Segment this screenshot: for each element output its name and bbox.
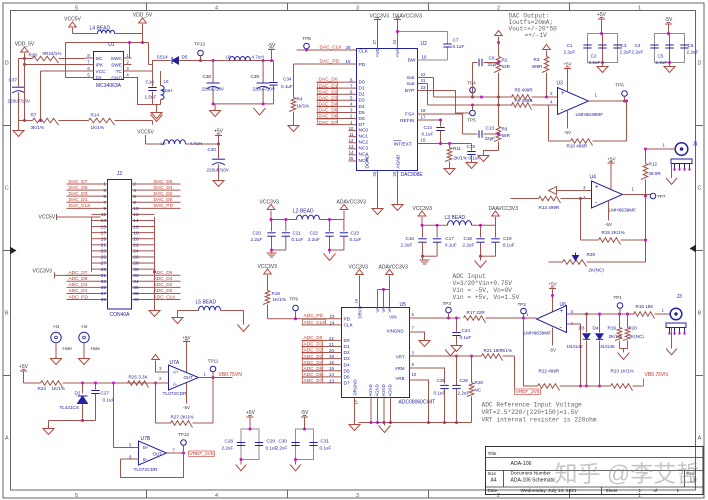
svg-text:INT/EXT: INT/EXT	[394, 142, 412, 148]
svg-text:19: 19	[101, 236, 107, 242]
svg-text:CLK: CLK	[344, 323, 354, 329]
svg-text:0.1uF: 0.1uF	[445, 243, 457, 248]
svg-text:C26: C26	[460, 378, 469, 383]
svg-text:+: +	[561, 91, 565, 97]
svg-text:TP8: TP8	[302, 36, 311, 41]
svg-text:NC1: NC1	[359, 133, 369, 139]
wire SW node to diode	[124, 57, 130, 59]
svg-text:ADAVCC3V3: ADAVCC3V3	[337, 200, 367, 206]
svg-text:TP1: TP1	[614, 295, 623, 300]
svg-text:A: A	[698, 436, 702, 442]
svg-text:VA: VA	[387, 307, 392, 312]
svg-text:C21: C21	[293, 231, 302, 236]
svg-text:C: C	[698, 186, 702, 192]
svg-text:D4: D4	[344, 362, 350, 368]
svg-text:40: 40	[133, 297, 139, 303]
net label VREF_2V5 output	[189, 451, 215, 456]
svg-text:NC3: NC3	[359, 146, 369, 152]
svg-text:VREF_2V5: VREF_2V5	[516, 389, 540, 395]
svg-text:4: 4	[215, 6, 218, 12]
svg-text:Wednesday, July 14, 2021: Wednesday, July 14, 2021	[521, 488, 577, 494]
svg-text:D4: D4	[359, 104, 365, 110]
svg-text:D: D	[698, 61, 702, 67]
svg-text:C2: C2	[591, 54, 597, 59]
svg-text:R11: R11	[453, 146, 462, 151]
svg-text:VRT=2.5*220/(220+150)=1.5V: VRT=2.5*220/(220+150)=1.5V	[482, 409, 579, 416]
svg-text:Iout: Iout	[406, 75, 415, 81]
svg-text:R2: R2	[502, 58, 508, 63]
U5 DRGND wire and ground	[354, 398, 356, 425]
svg-text:SS14: SS14	[157, 55, 169, 60]
svg-text:VRT: VRT	[396, 355, 405, 360]
svg-text:26: 26	[372, 171, 377, 176]
net label VREF_2V5 (to VRT)	[514, 356, 516, 389]
svg-text:22pF: 22pF	[485, 136, 496, 141]
J2 right pin stubs and numbers	[132, 183, 139, 185]
svg-text:L5 BEAD: L5 BEAD	[196, 300, 217, 306]
svg-text:19: 19	[329, 354, 334, 359]
svg-text:VREF_2V5: VREF_2V5	[190, 451, 214, 457]
ground below C5	[669, 63, 671, 67]
wire U2 VA rail to C7	[398, 31, 448, 33]
svg-text:1N4148: 1N4148	[567, 344, 584, 349]
ground below J1	[671, 164, 673, 179]
svg-text:C22: C22	[310, 231, 319, 236]
svg-text:3: 3	[356, 493, 359, 499]
svg-text:VCC3V3: VCC3V3	[349, 265, 369, 271]
svg-text:TP4: TP4	[467, 81, 476, 86]
svg-text:D7: D7	[344, 380, 350, 386]
svg-text:18: 18	[421, 108, 426, 113]
test point TP7	[650, 193, 656, 199]
svg-text:17: 17	[421, 114, 426, 119]
svg-text:VCC: VCC	[96, 69, 107, 75]
svg-text:IPK: IPK	[96, 62, 105, 68]
ground below C22 C23 (open)	[329, 250, 331, 254]
svg-text:TP11: TP11	[208, 359, 219, 364]
svg-text:Sheet: Sheet	[606, 488, 619, 493]
svg-text:0.1uF: 0.1uF	[434, 391, 446, 396]
U5 VRM row to C25	[410, 368, 445, 384]
wire U1 top loop	[66, 34, 143, 43]
svg-text:U1: U1	[108, 42, 115, 48]
svg-text:DC: DC	[96, 56, 103, 62]
svg-text:23: 23	[330, 314, 335, 319]
svg-text:39: 39	[101, 297, 107, 303]
svg-text:22: 22	[421, 72, 426, 77]
svg-text:220uF/10V: 220uF/10V	[207, 168, 230, 173]
svg-text:Size: Size	[488, 471, 497, 476]
svg-text:R22 499R: R22 499R	[539, 369, 560, 374]
svg-text:GND: GND	[111, 75, 122, 81]
svg-text:-5V: -5V	[549, 348, 557, 353]
svg-text:2.2uF: 2.2uF	[564, 50, 576, 55]
svg-text:AGND: AGND	[396, 154, 402, 168]
svg-text:13: 13	[349, 144, 354, 149]
svg-text:12: 12	[133, 212, 139, 218]
svg-text:5: 5	[75, 493, 78, 499]
svg-text:B-: B-	[143, 457, 148, 462]
svg-text:5: 5	[103, 194, 106, 200]
svg-text:C28: C28	[225, 439, 234, 444]
svg-text:Hole: Hole	[63, 346, 73, 351]
svg-text:A+: A+	[173, 369, 179, 374]
svg-text:C8: C8	[489, 56, 495, 61]
svg-text:2K/1%: 2K/1%	[454, 156, 468, 161]
svg-text:U7B: U7B	[141, 436, 151, 442]
ground below C30 C31	[295, 460, 297, 465]
svg-text:BYP: BYP	[405, 88, 415, 94]
wire R9 bottom to ground	[484, 151, 499, 156]
U5 VRT row wire	[410, 355, 481, 357]
svg-text:CLK: CLK	[359, 49, 369, 55]
svg-text:4.7uH: 4.7uH	[252, 55, 264, 60]
svg-text:TL072CDR: TL072CDR	[163, 391, 188, 397]
svg-text:PD: PD	[344, 316, 351, 322]
svg-text:D: D	[5, 61, 9, 67]
svg-text:R24: R24	[38, 386, 47, 391]
svg-text:1: 1	[639, 488, 642, 493]
L3 group bottom rails	[423, 255, 438, 257]
svg-text:B+: B+	[143, 445, 149, 450]
svg-text:LMH6639MF: LMH6639MF	[524, 331, 552, 337]
svg-text:53R: 53R	[502, 64, 511, 69]
ground below C37	[18, 129, 20, 131]
ground rail below TL431 C27	[49, 420, 96, 422]
svg-text:TP7: TP7	[657, 194, 666, 199]
svg-text:TP3: TP3	[443, 301, 452, 306]
svg-text:2: 2	[497, 6, 500, 12]
svg-text:25: 25	[101, 255, 107, 261]
svg-text:VRB: VRB	[395, 376, 404, 381]
svg-text:ADA-106: ADA-106	[511, 461, 532, 467]
svg-text:TP5: TP5	[467, 118, 476, 123]
svg-text:C5: C5	[658, 54, 664, 59]
svg-text:R27 2K/1%: R27 2K/1%	[171, 415, 194, 420]
svg-text:VA: VA	[381, 307, 386, 312]
svg-text:49.9R: 49.9R	[649, 171, 662, 176]
wire REFIN row	[418, 119, 441, 121]
svg-text:20: 20	[392, 171, 397, 176]
svg-text:D2: D2	[75, 391, 81, 396]
svg-text:38: 38	[133, 291, 139, 297]
svg-text:DRVD: DRVD	[358, 306, 363, 318]
svg-text:19: 19	[422, 55, 427, 60]
svg-text:R18: R18	[272, 291, 281, 296]
svg-text:C4: C4	[635, 43, 641, 48]
svg-text:21: 21	[101, 243, 107, 249]
J2 left ground bus	[91, 217, 93, 272]
svg-text:C1: C1	[567, 43, 573, 48]
svg-text:R5 499R: R5 499R	[515, 88, 534, 93]
ground below C18 C19 (open)	[480, 256, 482, 260]
svg-text:D1: D1	[359, 86, 365, 92]
svg-text:R7: R7	[31, 113, 37, 118]
svg-text:2.2uF: 2.2uF	[687, 50, 699, 55]
svg-text:5: 5	[75, 6, 78, 12]
svg-text:1K/1%: 1K/1%	[273, 297, 287, 302]
svg-text:+5V: +5V	[607, 157, 616, 162]
svg-text:H1: H1	[53, 324, 59, 330]
ground arrow right of L5	[243, 311, 245, 325]
svg-text:Hole: Hole	[91, 346, 101, 351]
svg-text:C30: C30	[279, 439, 288, 444]
ground below C2	[602, 63, 604, 67]
svg-text:R3: R3	[534, 57, 540, 62]
svg-text:3: 3	[103, 188, 106, 194]
svg-text:VINGND: VINGND	[386, 329, 403, 334]
svg-text:PD: PD	[359, 62, 366, 68]
power arrow above R2	[495, 31, 503, 36]
svg-text:TL431CS: TL431CS	[60, 405, 79, 410]
svg-text:56R: 56R	[502, 133, 511, 138]
svg-text:+5V: +5V	[182, 335, 191, 340]
svg-text:知乎 @李艾哲: 知乎 @李艾哲	[555, 461, 700, 487]
svg-text:AGND: AGND	[388, 384, 393, 396]
power arrow above R3	[543, 45, 551, 50]
svg-text:9: 9	[103, 206, 106, 212]
svg-text:VB0.75VN: VB0.75VN	[219, 372, 243, 378]
svg-text:29: 29	[101, 267, 107, 273]
ground below C10 L6	[153, 104, 161, 106]
svg-text:VCC3V3: VCC3V3	[370, 14, 390, 20]
wire Iout rows to summing rails	[418, 77, 434, 79]
svg-text:-5V: -5V	[605, 222, 613, 227]
border column ticks top	[146, 3, 148, 11]
capacitor bank C1 C2 C3	[588, 34, 618, 63]
svg-text:VCC5V: VCC5V	[39, 215, 56, 221]
svg-text:15: 15	[346, 59, 351, 64]
svg-text:DAC_CLK: DAC_CLK	[320, 44, 343, 50]
svg-text:FSA: FSA	[405, 112, 415, 118]
ground below C40	[213, 181, 224, 187]
ground below C38 (triangle)	[214, 104, 216, 111]
svg-text:C38: C38	[203, 74, 212, 79]
title block frame	[486, 447, 704, 495]
svg-text:15: 15	[101, 224, 107, 230]
svg-text:VDD_5V: VDD_5V	[133, 13, 153, 19]
svg-text:C7: C7	[453, 38, 459, 43]
svg-text:ADC Reference Input Voltage: ADC Reference Input Voltage	[482, 402, 583, 409]
svg-text:R26: R26	[475, 380, 484, 385]
svg-text:TC: TC	[116, 69, 123, 75]
svg-text:TP9: TP9	[290, 297, 299, 302]
svg-text:VCC5V: VCC5V	[64, 17, 81, 23]
svg-text:FB: FB	[96, 75, 102, 81]
svg-text:23: 23	[101, 249, 107, 255]
svg-text:TP13: TP13	[194, 42, 205, 47]
svg-text:DAAVCC3V3: DAAVCC3V3	[489, 206, 519, 212]
svg-text:8: 8	[133, 200, 136, 206]
L2 group bottom rails	[272, 249, 286, 251]
svg-text:0.1uF: 0.1uF	[281, 84, 293, 89]
svg-text:0.1uF: 0.1uF	[320, 446, 332, 451]
svg-text:1K/1%: 1K/1%	[91, 125, 105, 130]
svg-text:0.1uF: 0.1uF	[350, 237, 362, 242]
svg-text:C40: C40	[208, 147, 217, 152]
svg-text:C29: C29	[267, 439, 276, 444]
svg-text:0.1uF: 0.1uF	[103, 398, 115, 403]
ground left of L5	[177, 311, 179, 318]
svg-text:A-: A-	[173, 381, 178, 386]
svg-text:D3: D3	[344, 356, 350, 362]
U7B feedback loop wire	[121, 453, 184, 478]
svg-text:VCC5V: VCC5V	[137, 130, 154, 136]
ground below C16 C17 (earth bars)	[422, 256, 424, 259]
svg-text:0R24/1%: 0R24/1%	[43, 51, 62, 56]
svg-text:2: 2	[133, 182, 136, 188]
svg-text:H2: H2	[81, 324, 87, 330]
svg-text:36: 36	[133, 285, 139, 291]
ground below R9	[478, 156, 489, 162]
svg-text:2.2uF: 2.2uF	[401, 243, 413, 248]
svg-text:AGND: AGND	[368, 384, 373, 396]
svg-text:1: 1	[677, 488, 680, 493]
svg-text:VCC3V3: VCC3V3	[33, 269, 53, 275]
svg-text:C23: C23	[351, 231, 360, 236]
ground below H2	[79, 359, 90, 365]
ground below R11	[444, 169, 455, 175]
svg-text:11: 11	[349, 132, 354, 137]
svg-text:L2 BEAD: L2 BEAD	[293, 209, 314, 215]
capacitor bank C30 C31	[296, 429, 314, 460]
svg-text:C18: C18	[464, 236, 473, 241]
svg-text:2: 2	[497, 493, 500, 499]
svg-text:-5V: -5V	[183, 405, 191, 410]
svg-text:1: 1	[103, 182, 106, 188]
svg-text:2.2uF: 2.2uF	[222, 446, 234, 451]
svg-text:2K(NC): 2K(NC)	[589, 268, 605, 273]
U1 pins right 1 2 3 4	[124, 57, 132, 59]
svg-text:VCC3V3: VCC3V3	[260, 200, 280, 206]
svg-text:TL072CDR: TL072CDR	[134, 467, 159, 473]
svg-text:D5: D5	[344, 368, 350, 374]
svg-text:0.1uF: 0.1uF	[453, 44, 465, 49]
svg-text:REFIN: REFIN	[400, 118, 415, 124]
svg-text:R21 150R/1%: R21 150R/1%	[484, 348, 513, 353]
ground below J2 right bus	[149, 311, 160, 317]
svg-text:24: 24	[392, 39, 397, 44]
svg-text:J1: J1	[693, 142, 699, 148]
svg-text:10: 10	[412, 372, 417, 377]
U4 supply -5V	[608, 201, 610, 221]
svg-text:B: B	[5, 311, 9, 317]
svg-text:33: 33	[101, 279, 107, 285]
svg-text:R14: R14	[91, 113, 100, 118]
svg-text:=+/-1V: =+/-1V	[525, 32, 548, 39]
svg-text:+VD: +VD	[375, 47, 381, 57]
svg-text:16: 16	[133, 224, 139, 230]
wire pin7 row	[25, 64, 86, 66]
svg-text:U3: U3	[557, 81, 564, 87]
svg-text:24: 24	[133, 249, 139, 255]
svg-text:14: 14	[329, 372, 334, 377]
svg-text:C17: C17	[445, 236, 454, 241]
svg-text:+: +	[595, 185, 599, 191]
J2 right ground bus	[154, 217, 156, 311]
svg-text:20: 20	[329, 348, 334, 353]
svg-text:TP2: TP2	[518, 302, 527, 307]
svg-text:R9: R9	[502, 127, 508, 132]
vertical VDD rail to bottom row	[24, 59, 26, 121]
svg-text:22: 22	[133, 243, 139, 249]
svg-text:2.2uF: 2.2uF	[589, 60, 601, 65]
svg-text:D0: D0	[359, 80, 365, 86]
svg-text:R28: R28	[29, 53, 38, 58]
ground below C28 C29	[240, 460, 242, 465]
wire pin5-FB row	[66, 43, 86, 78]
svg-text:BW: BW	[408, 58, 416, 64]
svg-text:31: 31	[101, 273, 107, 279]
svg-text:1: 1	[638, 493, 641, 499]
svg-text:26: 26	[133, 255, 139, 261]
svg-text:ADC Input: ADC Input	[453, 273, 487, 280]
svg-text:C39: C39	[251, 74, 260, 79]
svg-text:220uF/10V: 220uF/10V	[253, 87, 276, 92]
svg-text:220uF/10V: 220uF/10V	[8, 99, 31, 104]
svg-text:R29: R29	[587, 252, 596, 257]
svg-text:J3: J3	[677, 294, 683, 300]
svg-text:R23 1K/1%: R23 1K/1%	[611, 369, 634, 374]
svg-text:OUT: OUT	[184, 375, 194, 380]
svg-text:17: 17	[101, 230, 107, 236]
svg-text:A4: A4	[491, 478, 497, 484]
svg-text:18: 18	[354, 298, 359, 303]
svg-text:16: 16	[329, 360, 334, 365]
svg-text:2.2uF: 2.2uF	[276, 446, 288, 451]
svg-text:0.1uF: 0.1uF	[503, 243, 515, 248]
svg-text:DAC_PD: DAC_PD	[320, 58, 340, 64]
svg-text:VRT internal resister is 220oh: VRT internal resister is 220ohm	[482, 417, 597, 424]
svg-text:ADA-106 Schematic: ADA-106 Schematic	[511, 478, 557, 484]
svg-text:AGND: AGND	[381, 384, 386, 396]
svg-text:2.2uF: 2.2uF	[632, 50, 644, 55]
svg-text:D5: D5	[182, 55, 188, 60]
svg-text:2.2uF: 2.2uF	[251, 237, 263, 242]
ground below VINGND	[419, 341, 430, 347]
svg-text:ADC08060CIMT: ADC08060CIMT	[399, 400, 436, 406]
svg-text:VRM: VRM	[395, 366, 405, 371]
svg-text:U2: U2	[421, 41, 428, 47]
svg-text:1: 1	[638, 6, 641, 12]
svg-text:0.1uF: 0.1uF	[422, 132, 434, 137]
capacitor bank C28 C29	[241, 429, 259, 460]
U3 supply stubs -5V	[567, 110, 569, 129]
svg-text:14: 14	[133, 218, 139, 224]
svg-text:35: 35	[101, 285, 107, 291]
svg-text:0.1uF: 0.1uF	[460, 335, 472, 340]
svg-text:27: 27	[101, 261, 107, 267]
svg-text:C14: C14	[424, 125, 433, 130]
svg-text:A: A	[5, 436, 9, 442]
ground below R4	[288, 126, 299, 132]
svg-text:1k/1%: 1k/1%	[297, 104, 310, 109]
svg-text:C24: C24	[462, 328, 471, 333]
svg-text:Vin = -5V, Vo=0V: Vin = -5V, Vo=0V	[453, 287, 513, 294]
capacitor bank C4 C5 C6	[655, 34, 685, 63]
ground arrow below AGND rail	[384, 423, 386, 426]
svg-text:34: 34	[133, 279, 139, 285]
svg-text:R13 499R: R13 499R	[539, 205, 560, 210]
svg-text:4: 4	[215, 493, 218, 499]
svg-text:Document Number: Document Number	[511, 471, 552, 477]
svg-text:R12: R12	[649, 162, 658, 167]
svg-text:R25 3.3K: R25 3.3K	[129, 375, 149, 380]
svg-text:C10: C10	[146, 80, 155, 85]
svg-text:VB0.75VN: VB0.75VN	[645, 372, 669, 378]
svg-text:Date:: Date:	[488, 488, 499, 493]
svg-text:C13: C13	[486, 126, 495, 131]
